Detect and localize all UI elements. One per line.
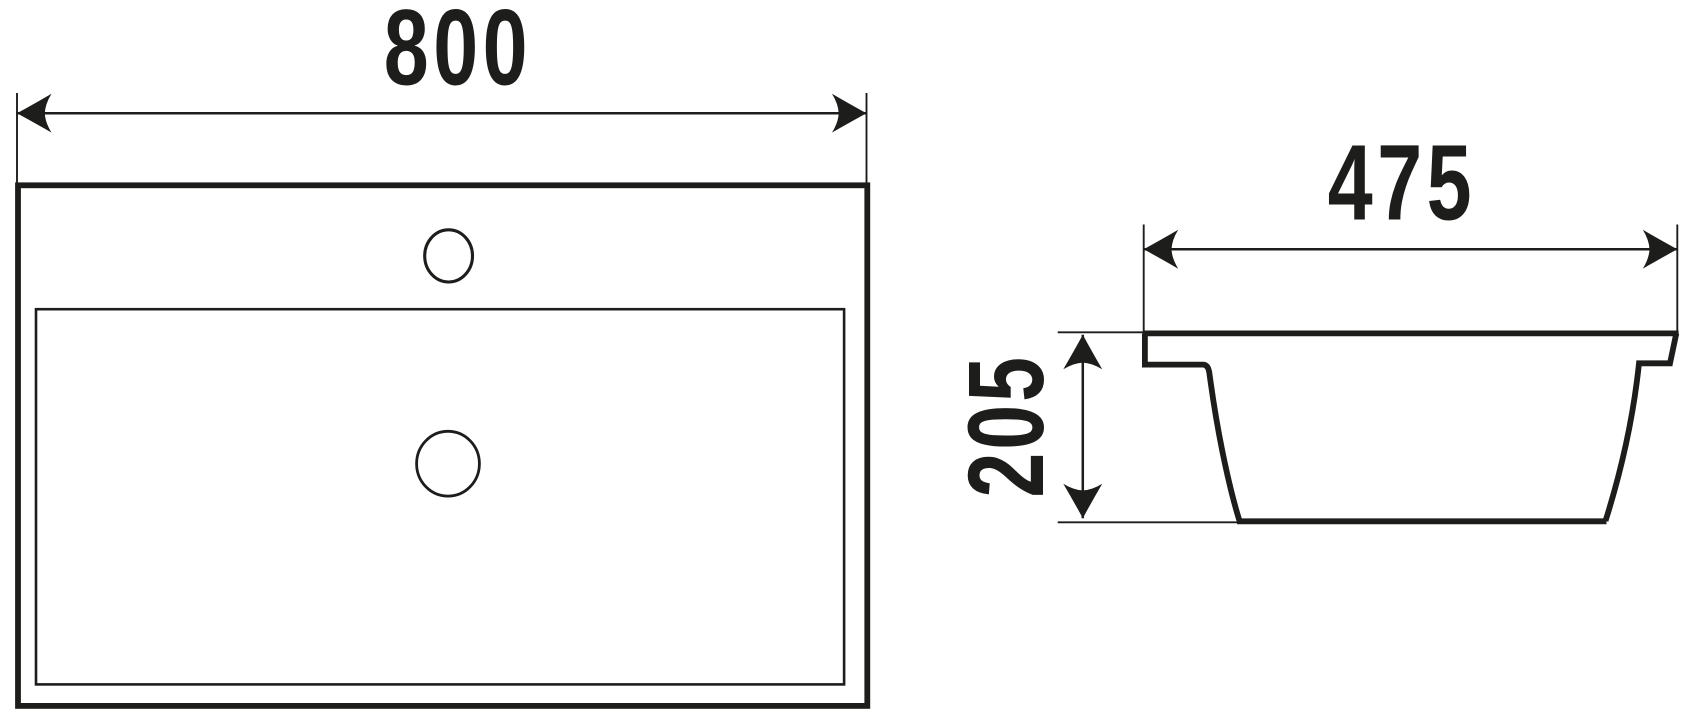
drain hole (417, 431, 480, 496)
dimension 205 extension line bottom (1058, 521, 1237, 523)
side view rim line (1143, 330, 1678, 336)
basin inner bowl outline (top view) (36, 309, 844, 684)
dimension 475 extension line left (1143, 225, 1145, 333)
dimension 475 arrow left (1144, 230, 1179, 269)
svg-text:475: 475 (1328, 123, 1476, 243)
dimension 475 arrow right (1643, 230, 1678, 269)
side view right lip and wall (1606, 333, 1677, 521)
dimension 205 line (1082, 335, 1085, 518)
svg-text:205: 205 (947, 354, 1067, 498)
dimension 800 extension line right (866, 93, 868, 184)
side view left lip and wall (1145, 333, 1240, 521)
dimension 800 extension line left (16, 93, 18, 188)
svg-text:800: 800 (384, 0, 532, 108)
dimension 205 arrow bottom (1063, 484, 1102, 519)
dimension 205 extension line top (1058, 331, 1144, 333)
basin outer outline (top view) (18, 185, 867, 706)
dimension 205 arrow top (1063, 335, 1102, 370)
dimension 475 extension line right (1676, 225, 1678, 332)
side view basin bottom (1237, 518, 1607, 524)
faucet hole (425, 230, 473, 282)
dimension 800 line (17, 112, 867, 115)
dimension 800 arrow left (17, 94, 52, 133)
dimension 800 arrow right (832, 94, 867, 133)
dimension 475 line (1144, 248, 1678, 251)
